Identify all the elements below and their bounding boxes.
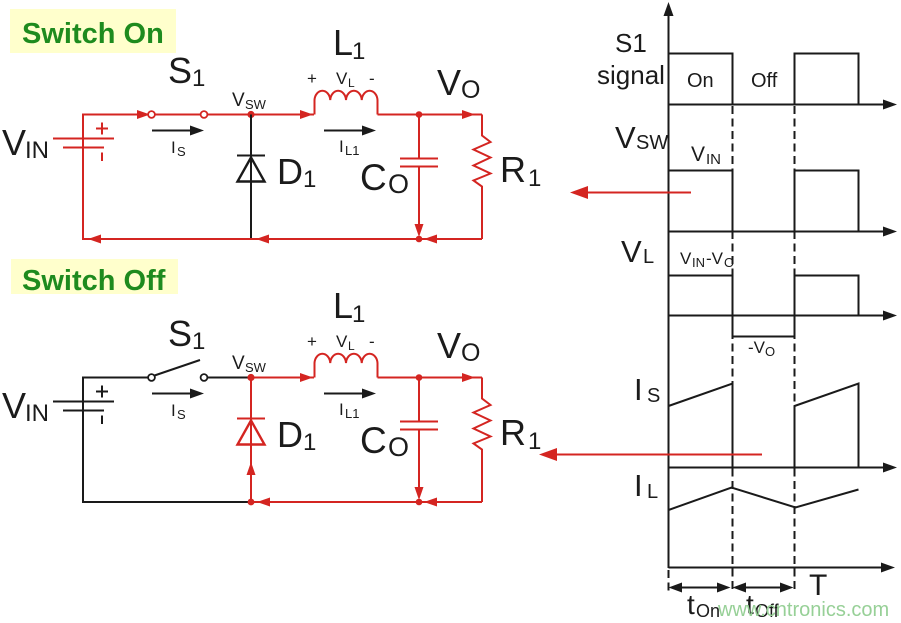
svg-text:V: V [691, 143, 705, 166]
svg-text:V: V [437, 325, 461, 366]
svg-text:V: V [621, 234, 642, 269]
label -V_O [748, 338, 775, 359]
capacitor C_O bottom wire [418, 167, 420, 229]
svg-text:SW: SW [636, 132, 668, 154]
svg-text:V: V [336, 332, 348, 351]
I_S waveform [669, 384, 859, 468]
current arrow I_S [152, 126, 204, 136]
svg-text:V: V [437, 62, 461, 103]
svg-text:www.cntronics.com: www.cntronics.com [717, 599, 889, 621]
svg-text:Switch Off: Switch Off [22, 265, 166, 297]
dashed guide line t1 [732, 106, 734, 592]
svg-text:signal: signal [597, 60, 665, 90]
node dot at C_O bottom [416, 236, 423, 243]
svg-text:I: I [339, 400, 344, 419]
svg-text:1: 1 [303, 166, 316, 193]
label S1 (2) [168, 313, 205, 355]
svg-text:O: O [724, 255, 734, 270]
resistor R1 (2) [474, 378, 491, 503]
arrowhead down to bottom rail [415, 224, 424, 237]
svg-text:O: O [461, 76, 480, 104]
svg-text:Off: Off [751, 70, 778, 92]
V_SW waveform [669, 171, 859, 232]
S1 signal waveform [669, 54, 859, 105]
diode D1 symbol [237, 156, 265, 182]
svg-text:V: V [336, 69, 348, 88]
dashed guide below axis at origin [668, 570, 670, 592]
diode D1 wire (2) [250, 378, 252, 503]
svg-text:S: S [647, 385, 660, 407]
svg-text:1: 1 [528, 165, 541, 192]
svg-text:On: On [696, 601, 720, 621]
svg-text:L1: L1 [345, 143, 359, 158]
svg-text:D: D [277, 414, 303, 455]
arrowhead down to bottom rail (2) [415, 487, 424, 500]
arrowhead before inductor (2) [300, 373, 313, 382]
svg-text:t: t [687, 589, 695, 620]
svg-text:S: S [168, 50, 192, 91]
svg-text:-V: -V [748, 338, 766, 357]
svg-text:V: V [232, 353, 245, 374]
label R1 (2) [500, 412, 541, 455]
label V_SW [232, 90, 267, 112]
svg-text:IN: IN [706, 151, 721, 168]
svg-text:On: On [687, 70, 714, 92]
current arrow I_L1 (2) [324, 389, 376, 399]
svg-text:IN: IN [692, 255, 705, 270]
label S1 signal [597, 28, 665, 90]
V_SW axis [669, 227, 898, 237]
svg-text:1: 1 [352, 38, 365, 65]
bottom rail arrowheads [88, 235, 437, 244]
svg-text:L1: L1 [345, 406, 359, 421]
svg-text:S: S [168, 313, 192, 354]
title Switch Off [11, 259, 178, 297]
svg-text:S: S [177, 144, 186, 159]
switch S1 open arm (2) [155, 360, 201, 376]
label V_SW axis [615, 120, 668, 155]
current arrow I_L1 [324, 126, 376, 136]
svg-text:I: I [171, 138, 176, 157]
svg-text:I: I [634, 468, 643, 503]
I_L waveform [669, 488, 859, 511]
label V_IN-V_O [680, 249, 734, 270]
diode current arrowhead up (2) [247, 462, 256, 475]
svg-text:IN: IN [25, 137, 49, 164]
svg-text:-: - [369, 69, 375, 88]
svg-text:SW: SW [245, 360, 267, 375]
wire battery top to switch [83, 115, 148, 139]
svg-text:C: C [360, 157, 387, 198]
label t_On [687, 589, 720, 621]
resistor R1 [474, 115, 491, 240]
svg-text:Switch On: Switch On [22, 18, 164, 50]
node V_SW dot [247, 111, 254, 118]
bottom rail red segment (2) [251, 501, 482, 503]
node dot at C_O top [416, 111, 423, 118]
svg-text:-: - [369, 332, 375, 351]
vertical time axis [664, 2, 674, 568]
svg-text:SW: SW [245, 97, 267, 112]
current arrow I_S (2) [152, 389, 204, 399]
wire between switch contacts (closed) [150, 114, 251, 116]
capacitor C_O top wire (2) [418, 378, 420, 422]
diode D1 symbol (2) [237, 419, 265, 445]
label I_L1 (2) [339, 400, 359, 421]
inductor L1 (2) [315, 354, 378, 378]
wire inductor to V_O corner (2) [378, 377, 483, 379]
svg-text:IN: IN [25, 400, 49, 427]
label V_SW (2) [232, 353, 267, 375]
switch S1 contact circles (2) [148, 374, 207, 381]
I_L axis [669, 563, 896, 573]
label t_Off [746, 589, 780, 621]
label I_S axis [634, 372, 660, 407]
t_On duration arrow [669, 583, 731, 593]
svg-text:1: 1 [528, 428, 541, 455]
inductor L1 [315, 91, 378, 115]
svg-text:I: I [339, 137, 344, 156]
label V_O (2) [437, 325, 480, 367]
capacitor C_O top wire [418, 115, 420, 159]
battery V_IN [53, 123, 114, 162]
svg-text:V: V [2, 122, 26, 163]
svg-text:T: T [809, 569, 827, 602]
red pointer arrow to circuit 2 [539, 448, 762, 461]
bottom rail black segment (2) [83, 410, 251, 502]
node dot at C_O bottom (2) [416, 499, 423, 506]
svg-text:1: 1 [352, 301, 365, 328]
wire switch to node (2) [208, 377, 252, 379]
svg-text:O: O [388, 432, 409, 462]
svg-text:L: L [348, 339, 355, 353]
bottom rail wire [83, 147, 482, 239]
svg-text:L: L [333, 22, 353, 63]
svg-text:V: V [615, 120, 636, 155]
label I_L axis [634, 468, 658, 503]
t_Off duration arrow [733, 583, 794, 593]
svg-text:V: V [680, 249, 692, 268]
svg-text:C: C [360, 420, 387, 461]
label C_O (2) [360, 420, 409, 462]
capacitor C_O plates [400, 159, 438, 167]
S1 signal axis [669, 100, 898, 110]
label D1 [277, 151, 316, 193]
svg-text:1: 1 [192, 328, 205, 355]
svg-text:V: V [2, 385, 26, 426]
V_L axis [669, 311, 898, 321]
bottom rail arrowheads (2) [257, 498, 437, 507]
label V_IN on waveform [691, 143, 721, 168]
label V_L axis [621, 234, 654, 269]
node dot diode bottom (2) [248, 499, 255, 506]
SECTION: waveform panel [539, 2, 897, 621]
svg-text:S1: S1 [615, 28, 647, 58]
switch S1 contact circles [148, 111, 207, 118]
SECTION: circuit 1 Switch On [2, 9, 541, 244]
wire battery top to switch (2) [83, 378, 148, 402]
label S1 [168, 50, 205, 92]
wire node to inductor (2) [251, 377, 314, 379]
svg-text:L: L [643, 246, 654, 268]
label V_O [437, 62, 480, 104]
label I_L1 [339, 137, 359, 158]
svg-text:1: 1 [303, 429, 316, 456]
title Switch On [10, 9, 176, 53]
label + V_L - (2) [307, 332, 375, 353]
svg-text:+: + [307, 69, 317, 88]
dashed guide line t2 [794, 106, 796, 592]
label + V_L - [307, 69, 375, 90]
label D1 (2) [277, 414, 316, 456]
capacitor C_O plates (2) [400, 422, 438, 430]
label V_IN [2, 122, 49, 164]
battery V_IN (2) [53, 386, 114, 425]
wire inductor to V_O corner [378, 114, 483, 116]
wire node to inductor [251, 114, 314, 116]
svg-text:V: V [232, 90, 245, 111]
arrowhead before inductor [300, 110, 313, 119]
label L1 (2) [333, 285, 365, 328]
node dot at C_O top (2) [416, 374, 423, 381]
svg-text:L: L [348, 76, 355, 90]
svg-text:L: L [333, 285, 353, 326]
svg-text:S: S [177, 407, 186, 422]
svg-text:O: O [461, 339, 480, 367]
node V_SW dot (2) [247, 374, 254, 381]
diode D1 wire [250, 115, 252, 240]
svg-text:-V: -V [706, 249, 724, 268]
svg-text:L: L [647, 481, 658, 503]
arrowhead before R1 (2) [462, 373, 475, 382]
label C_O [360, 157, 409, 199]
I_S axis [669, 463, 898, 473]
label R1 [500, 149, 541, 192]
svg-text:I: I [171, 401, 176, 420]
svg-text:I: I [634, 372, 643, 407]
current arrowhead on top wire [137, 110, 150, 119]
capacitor C_O bottom wire (2) [418, 430, 420, 492]
svg-text:O: O [765, 344, 775, 359]
label L1 [333, 22, 365, 65]
svg-text:D: D [277, 151, 303, 192]
svg-text:R: R [500, 412, 526, 453]
svg-text:+: + [307, 332, 317, 351]
red pointer arrow to circuit 1 [570, 186, 691, 199]
svg-text:O: O [388, 169, 409, 199]
label I_S (2) [171, 401, 186, 422]
label V_IN (2) [2, 385, 49, 427]
SECTION: circuit 2 Switch Off [2, 259, 541, 507]
label I_S [171, 138, 186, 159]
V_L waveform [669, 276, 859, 337]
svg-text:R: R [500, 149, 526, 190]
arrowhead before R1 [462, 110, 475, 119]
svg-text:1: 1 [192, 65, 205, 92]
